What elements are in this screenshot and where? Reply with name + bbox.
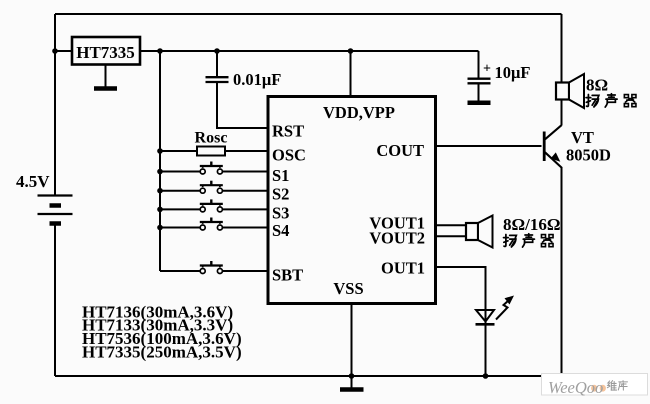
svg-text:S2: S2 [272, 185, 289, 204]
svg-text:HT7335: HT7335 [76, 43, 135, 62]
wire top rail [55, 13, 562, 15]
switch SBT [200, 261, 223, 274]
transistor Q1 VT 8050D [544, 125, 562, 168]
capacitor C2 10uF polarized [468, 79, 491, 84]
svg-text:SBT: SBT [272, 266, 303, 285]
label yangshengqi 2 [504, 234, 553, 247]
wire left rail lower (battery - to bottom rail) [54, 224, 56, 377]
node dot bus top [157, 48, 163, 54]
wire right rail speaker to collector [561, 99, 563, 126]
speaker SP1 [556, 74, 584, 108]
node dot S2 [157, 188, 163, 194]
ground under HT7335 [94, 86, 117, 91]
wire S1 segments [160, 171, 268, 173]
svg-text:VOUT2: VOUT2 [369, 229, 425, 248]
svg-text:VSS: VSS [333, 279, 363, 298]
switch S4 [200, 218, 223, 231]
wire switch bus [159, 51, 161, 271]
svg-text:S4: S4 [272, 221, 289, 240]
wire bottom rail [55, 375, 562, 377]
svg-text:Rosc: Rosc [195, 130, 228, 147]
wire S4 segments [160, 227, 268, 229]
node dot VDD stub [348, 48, 354, 54]
svg-text:OSC: OSC [272, 146, 306, 165]
ground at VSS [349, 373, 355, 379]
LED D1 [476, 296, 515, 325]
svg-text:VT: VT [571, 128, 594, 147]
capacitor C1 0.01uF [206, 77, 229, 82]
svg-text:WeeQoo: WeeQoo [548, 378, 603, 397]
wire left rail upper (to battery +) [54, 14, 56, 196]
svg-text:COUT: COUT [376, 141, 424, 160]
watermark WeeQoo [542, 374, 648, 398]
wire VSS to ground [351, 304, 353, 389]
wire VDD stub into IC [350, 51, 352, 97]
svg-text:8Ω/16Ω: 8Ω/16Ω [503, 215, 560, 234]
wire 0.01uF top lead [216, 51, 218, 76]
wire OSC right segment [225, 150, 268, 152]
wire HT7335 input [55, 50, 72, 52]
label list HT713x types [82, 303, 242, 362]
wire OUT1 to LED [436, 267, 486, 376]
node dot S3 [157, 207, 163, 213]
node dot LED bottom [483, 373, 489, 379]
battery B1 4.5V [38, 196, 73, 224]
node dot OSC [157, 148, 163, 154]
wire OSC left segment [160, 150, 197, 152]
wire HT7335 ground stem [105, 65, 107, 87]
svg-text:4.5V: 4.5V [16, 172, 50, 191]
wire S2 segments [160, 190, 268, 192]
switch S1 [200, 162, 223, 175]
ground under 10uF [468, 100, 491, 105]
node dot 0.01uF top [214, 48, 220, 54]
node dot S1 [157, 169, 163, 175]
switch S3 [200, 199, 223, 212]
speaker SP2 [466, 216, 493, 248]
node dot S4 [157, 225, 163, 231]
resistor Rosc [197, 147, 225, 156]
wire right rail upper (top rail to speaker) [561, 14, 563, 83]
wire VOUT2 [436, 235, 467, 237]
wire 0.01uF bottom lead to RST [217, 83, 268, 128]
svg-text:S3: S3 [272, 204, 289, 223]
switch S2 [200, 181, 223, 194]
svg-text:HT7335(250mA,3.5V): HT7335(250mA,3.5V) [82, 343, 242, 362]
wire S3 segments [160, 208, 268, 210]
wire VDD rail (HT7335 output) [140, 50, 479, 52]
svg-text:VDD,VPP: VDD,VPP [323, 103, 395, 122]
svg-text:10μF: 10μF [495, 63, 531, 82]
svg-text:RST: RST [272, 122, 304, 141]
svg-text:OUT1: OUT1 [381, 259, 425, 278]
wire VOUT1 [436, 224, 467, 226]
wire right rail emitter to bottom rail [561, 167, 563, 376]
wire SBT segments [160, 270, 268, 272]
svg-text:8050D: 8050D [566, 146, 611, 165]
svg-text:8Ω: 8Ω [586, 76, 608, 95]
svg-text:+: + [483, 62, 491, 77]
regulator HT7335 box [72, 37, 140, 65]
label yangshengqi 1 [586, 94, 636, 107]
svg-text:S1: S1 [272, 166, 289, 185]
svg-text:0.01μF: 0.01μF [233, 70, 281, 89]
IC U1 main box [268, 97, 436, 304]
node dot HT7335 input [52, 48, 58, 54]
wire 10uF top lead [478, 51, 480, 78]
wire COUT to base [436, 145, 542, 147]
wire 10uF ground stem [478, 83, 480, 101]
